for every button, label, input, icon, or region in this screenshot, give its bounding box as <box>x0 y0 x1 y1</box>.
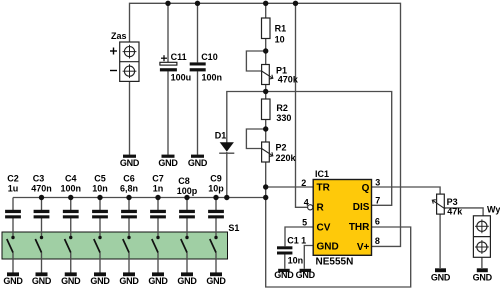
svg-text:470n: 470n <box>31 184 52 194</box>
svg-text:GND: GND <box>119 276 139 286</box>
svg-text:2: 2 <box>301 178 306 188</box>
svg-text:GND: GND <box>296 270 316 280</box>
svg-text:1u: 1u <box>8 184 19 194</box>
svg-text:C7: C7 <box>152 174 164 184</box>
svg-text:GND: GND <box>158 158 178 168</box>
svg-text:GND: GND <box>32 276 52 286</box>
svg-text:10n: 10n <box>92 184 108 194</box>
svg-text:10: 10 <box>275 34 285 44</box>
svg-text:100n: 100n <box>202 73 223 83</box>
svg-text:C4: C4 <box>65 174 77 184</box>
svg-text:10p: 10p <box>208 184 224 194</box>
svg-text:GND: GND <box>90 276 110 286</box>
svg-text:220k: 220k <box>276 153 297 163</box>
svg-text:R: R <box>317 203 325 214</box>
svg-text:DIS: DIS <box>353 202 370 213</box>
svg-text:100p: 100p <box>177 186 198 196</box>
svg-text:D1: D1 <box>215 131 227 141</box>
svg-text:470k: 470k <box>278 75 299 85</box>
svg-text:C9: C9 <box>210 174 222 184</box>
svg-text:5: 5 <box>302 217 307 227</box>
svg-text:GND: GND <box>317 242 339 253</box>
svg-text:C5: C5 <box>94 174 106 184</box>
svg-text:4: 4 <box>304 197 309 207</box>
svg-text:GND: GND <box>274 270 294 280</box>
svg-text:C10: C10 <box>201 52 218 62</box>
svg-text:GND: GND <box>473 272 493 282</box>
svg-text:GND: GND <box>431 272 451 282</box>
svg-text:GND: GND <box>206 276 226 286</box>
svg-text:C8: C8 <box>178 176 190 186</box>
svg-text:P2: P2 <box>276 143 287 153</box>
svg-text:V+: V+ <box>357 242 370 253</box>
svg-text:CV: CV <box>317 222 331 233</box>
svg-text:Q: Q <box>362 183 370 194</box>
svg-text:C1: C1 <box>287 235 299 245</box>
svg-text:GND: GND <box>188 158 208 168</box>
svg-text:100n: 100n <box>60 184 81 194</box>
svg-text:7: 7 <box>375 196 380 206</box>
svg-text:NE555N: NE555N <box>316 256 354 267</box>
svg-text:6,8n: 6,8n <box>120 184 138 194</box>
svg-text:C11: C11 <box>171 52 187 62</box>
svg-text:GND: GND <box>177 276 197 286</box>
svg-text:GND: GND <box>61 276 81 286</box>
svg-text:R2: R2 <box>276 103 288 113</box>
svg-text:P3: P3 <box>447 197 458 207</box>
svg-text:THR: THR <box>349 222 370 233</box>
svg-text:GND: GND <box>3 276 23 286</box>
svg-text:100u: 100u <box>171 73 192 83</box>
svg-text:6: 6 <box>375 217 380 227</box>
svg-text:1: 1 <box>301 236 306 246</box>
svg-text:S1: S1 <box>228 223 239 233</box>
svg-text:Wy: Wy <box>487 205 500 215</box>
svg-text:GND: GND <box>120 158 140 168</box>
svg-text:Zas: Zas <box>111 31 127 41</box>
svg-text:GND: GND <box>148 276 168 286</box>
svg-text:C6: C6 <box>123 174 135 184</box>
svg-text:1n: 1n <box>153 184 164 194</box>
svg-text:R1: R1 <box>275 24 287 34</box>
svg-text:TR: TR <box>317 183 331 194</box>
svg-text:330: 330 <box>276 113 291 123</box>
svg-text:3: 3 <box>375 177 380 187</box>
svg-text:C3: C3 <box>33 174 45 184</box>
svg-text:IC1: IC1 <box>315 169 329 179</box>
svg-text:47k: 47k <box>447 207 463 217</box>
svg-text:10n: 10n <box>288 256 304 266</box>
svg-text:C2: C2 <box>7 174 19 184</box>
svg-text:8: 8 <box>375 236 380 246</box>
